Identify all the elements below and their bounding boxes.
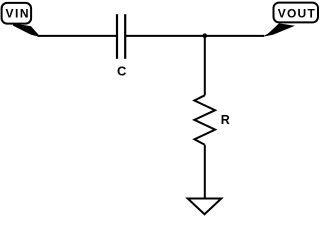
wire from VIN to capacitor — [38, 35, 118, 37]
net label VOUT tail — [262, 23, 296, 37]
wire resistor to ground — [204, 145, 206, 199]
svg-text:R: R — [221, 113, 230, 127]
capacitor C right plate — [124, 14, 126, 59]
net label VIN box — [2, 3, 32, 24]
node junction dot — [203, 33, 208, 38]
svg-text:VOUT: VOUT — [278, 7, 316, 21]
net label VIN tail — [13, 23, 41, 37]
capacitor C left plate — [116, 14, 118, 59]
wire node down to resistor — [204, 36, 206, 95]
ground — [188, 199, 222, 215]
net label VOUT box — [274, 3, 319, 23]
wire from capacitor through node to VOUT — [125, 35, 264, 37]
svg-text:VIN: VIN — [6, 7, 31, 21]
resistor R zigzag — [194, 95, 215, 145]
svg-text:C: C — [117, 64, 127, 79]
